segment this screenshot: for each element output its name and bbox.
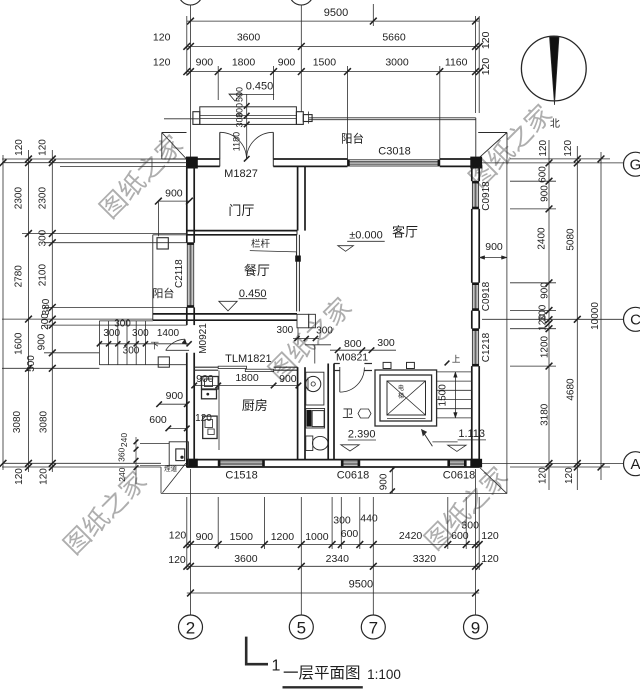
svg-text:600: 600 [341,528,359,540]
svg-text:M0921: M0921 [198,323,209,354]
svg-text:300: 300 [461,519,479,531]
right extension lines [510,180,556,182]
toilet [306,436,313,451]
eave corner bottom-left with diagonal [160,467,162,493]
stair treads (indoor, horizontal) [437,371,472,373]
flue dim chain 240/360/240 [135,437,137,484]
svg-text:120: 120 [481,553,499,565]
svg-text:300: 300 [235,112,245,127]
svg-text:梯: 梯 [398,392,404,400]
svg-text:120: 120 [480,58,492,76]
bottom intermediate extension lines [217,497,219,549]
grid bubble 9 bottom [464,615,488,639]
left dim chain middle line [28,150,30,472]
svg-text:1:100: 1:100 [367,667,401,682]
bath basin niche and bowl [306,372,324,405]
svg-text:300: 300 [333,515,351,527]
svg-text:下: 下 [151,341,160,351]
eave corner bottom-right with diagonal [479,467,507,494]
svg-text:2: 2 [186,618,195,637]
svg-text:900: 900 [379,473,390,490]
svg-text:3320: 3320 [413,553,437,565]
svg-text:4680: 4680 [566,378,577,401]
svg-text:600: 600 [451,530,469,542]
svg-text:120: 120 [563,140,574,157]
svg-text:1500: 1500 [438,384,449,407]
svg-text:2300: 2300 [14,187,25,210]
stair flight dim line 1500 [454,372,456,418]
bottom extension lines grid 2/5/7/9 [190,469,192,615]
svg-text:3080: 3080 [39,410,50,433]
entry steps band [200,107,297,125]
svg-text:北: 北 [550,118,560,130]
svg-text:120: 120 [14,468,25,485]
svg-text:9: 9 [471,618,480,637]
wall bottom A full width [187,459,479,461]
wall grid5 upper (foyer/living separation) [297,166,299,230]
svg-text:3180: 3180 [540,403,551,426]
svg-text:C0918: C0918 [481,281,492,311]
svg-text:300: 300 [103,328,120,339]
svg-text:1200: 1200 [271,531,295,543]
elevator door tabs [383,362,391,368]
svg-text:240: 240 [119,433,129,447]
grid bubble A [624,452,640,476]
outdoor stair dim line 300x3 + 1400 [99,343,189,345]
top extension line grid 5 [300,5,302,112]
entry level triangle [229,94,241,101]
svg-text:5: 5 [297,618,306,637]
svg-text:3080: 3080 [12,410,23,433]
kitchen counter front edge [218,371,220,451]
kitchen sink counter [202,377,219,390]
wall right grid9: segment below C1218 [471,366,473,460]
dining level triangle [219,301,237,311]
eave line above entry (left segment) [164,118,199,120]
eave line bottom [161,492,507,494]
svg-text:±0.000: ±0.000 [349,230,383,242]
svg-text:1800: 1800 [235,372,259,384]
wall left grid2: segment G to window C2118 [186,166,188,242]
svg-text:900: 900 [196,57,214,69]
svg-text:C1218: C1218 [481,332,492,362]
left dim chain inner line [51,150,53,472]
elevator shaft outer walls [375,370,437,426]
svg-text:C0918: C0918 [481,181,492,211]
wall right grid9: segment C0918b to C1218 [471,311,473,329]
top extension line edge left [186,16,188,76]
svg-text:120: 120 [480,31,492,49]
svg-text:2100: 2100 [38,264,49,287]
svg-text:300: 300 [132,328,149,339]
svg-text:一层平面图: 一层平面图 [283,665,361,682]
wall G top: segment left of door M1827 [187,158,220,160]
svg-text:5080: 5080 [566,228,577,251]
svg-text:120: 120 [168,554,186,566]
svg-text:120: 120 [538,467,549,484]
svg-text:1500: 1500 [313,57,337,69]
svg-text:9500: 9500 [349,578,373,590]
svg-text:煙道: 煙道 [164,464,178,473]
column at G x grid2 [186,157,198,169]
door M0821 leaf and arc [339,367,341,392]
stair down arrow [422,430,433,447]
svg-text:M1827: M1827 [224,168,258,180]
corridor level triangle [448,445,466,451]
title underline [283,686,363,688]
dimension line top row 3 (900/1800/900/1500/3000/1160) [187,71,479,73]
svg-text:300: 300 [377,337,395,349]
svg-text:2400: 2400 [537,227,548,250]
svg-text:9500: 9500 [324,7,348,19]
svg-text:2420: 2420 [399,530,423,542]
svg-text:1500: 1500 [230,531,254,543]
north compass circle [521,36,586,101]
svg-text:0.450: 0.450 [246,81,274,93]
svg-text:C3018: C3018 [378,146,410,158]
svg-text:600: 600 [538,166,549,183]
svg-text:2780: 2780 [14,265,25,288]
steps dining-living (two treads) [297,314,309,328]
entry porch dim chain (500/300/300/1180) [246,94,248,158]
balcony right corner vertical [475,118,477,159]
right dim chain inner [548,140,550,490]
svg-text:900: 900 [279,373,297,385]
grid line C to bubble [482,318,624,320]
svg-text:500: 500 [235,87,245,102]
window C2118 in left wall [187,243,193,308]
svg-text:1200: 1200 [540,335,551,358]
bottom dim row 1 line [187,544,479,546]
outdoor stair treads (left) [98,321,100,365]
svg-text:C0618: C0618 [443,469,475,481]
column at G x grid9 [470,157,482,169]
svg-text:120: 120 [38,139,49,156]
left side balcony outline [152,235,154,320]
bottom dim row 3 line 9500 [187,592,479,594]
svg-text:120: 120 [564,467,575,484]
bath top wall with door M0821 opening [334,363,340,365]
sliding door TLM1821 symbol [218,366,246,368]
svg-text:客厅: 客厅 [392,224,418,239]
wall left grid2: segment below M0921 [186,353,188,460]
svg-text:900: 900 [540,185,551,202]
wall jamb caps at door M1827 [219,159,221,166]
wall G top: segment right of window C3018 [440,158,479,160]
wall right grid9: segment C0918a to C0918b [471,209,473,283]
svg-text:500: 500 [26,355,37,372]
svg-text:3600: 3600 [237,32,261,44]
top extension line x=2700 [273,66,275,100]
svg-text:120: 120 [14,139,25,156]
svg-text:C2118: C2118 [174,259,185,288]
bath strip left wall (grid5) [297,367,299,459]
window C0918 lower in right wall [472,283,478,311]
svg-text:阳台: 阳台 [341,132,364,146]
wall below dining (double) [153,313,297,315]
grid line A to bubble [482,463,624,465]
svg-text:800: 800 [344,338,362,350]
svg-text:阳台: 阳台 [152,286,174,300]
railing 栏杆 between dining and living [296,235,298,312]
top extension line window C3018 left [347,66,349,160]
north compass needle [550,37,560,105]
grid bubble C [624,307,640,331]
svg-text:5660: 5660 [382,32,406,44]
svg-text:300: 300 [123,345,140,356]
flue 煙道 box [169,442,188,466]
wall right grid9: segment G to C0918a [471,166,473,181]
svg-text:1: 1 [272,658,281,675]
railing post dot [295,256,301,262]
svg-text:120: 120 [481,530,499,542]
balcony slab edge top (double line) [309,117,476,119]
dimension line top row 2 (3600/5660) [187,45,479,47]
balcony left edge stub [308,112,310,124]
wall left grid2: segment between C2118 and M0921 [186,307,188,325]
svg-text:2340: 2340 [326,553,350,565]
svg-text:1160: 1160 [445,57,468,69]
window C3018 in wall G [348,160,440,166]
svg-text:120: 120 [538,140,549,157]
svg-text:TLM1821: TLM1821 [225,353,271,365]
landing pier box [158,357,169,367]
svg-text:900: 900 [166,390,184,402]
svg-text:360: 360 [116,447,126,461]
right dim chain outer (10000) [600,152,602,480]
step dim line with arrows [293,338,319,340]
door M0921 leaf and arc [166,349,189,351]
svg-text:上: 上 [452,354,461,364]
kitchen top wall with TLM1821 opening [194,366,218,368]
svg-text:C0618: C0618 [337,469,369,481]
top extension line x=900 [217,66,219,100]
top extension line grid 2 [190,5,192,157]
top extension line grid 9 pair [475,16,477,113]
svg-text:C1518: C1518 [225,469,257,481]
svg-text:120: 120 [195,413,212,424]
entry steps left cap [193,112,200,125]
svg-text:300: 300 [38,229,49,246]
svg-text:0.450: 0.450 [239,288,267,300]
svg-text:1800: 1800 [232,57,256,69]
svg-text:200: 200 [40,313,51,330]
bath strip right wall [327,364,329,460]
grid bubble 5 bottom [289,615,313,639]
grid bubble 5 top (clipped) [289,0,313,5]
elevator car with X [387,381,426,415]
svg-text:120: 120 [39,468,50,485]
svg-text:栏杆: 栏杆 [251,238,271,250]
grid line G to bubble [482,162,624,164]
bath washer box [306,409,325,429]
svg-text:卫: 卫 [342,408,353,420]
window C0618 right in bottom wall [448,460,466,466]
kitchen stove counter [203,416,217,438]
bottom dim row 2 line [187,565,479,567]
svg-text:图纸之家: 图纸之家 [94,129,189,224]
svg-text:3000: 3000 [385,57,409,69]
top extension line grid 7 stub [372,4,374,26]
svg-text:300: 300 [277,325,294,336]
svg-text:2.390: 2.390 [348,429,376,441]
svg-text:120: 120 [153,32,171,44]
svg-text:1.113: 1.113 [458,428,485,440]
column at A x grid2 [186,459,198,468]
eave corner box top-right with diagonal [478,132,507,134]
svg-text:900: 900 [485,241,503,253]
window C0618 left in bottom wall [341,460,360,466]
title corner mark [246,637,268,665]
svg-text:440: 440 [360,513,378,525]
right dim chain middle [576,146,578,490]
dimension line 9500 (top row 1) [187,20,479,22]
svg-text:厨房: 厨房 [242,398,268,413]
wall below foyer 门厅 [187,230,297,232]
window C0918 upper in right wall [472,181,478,209]
svg-text:900: 900 [196,531,214,543]
svg-text:电: 电 [398,384,404,392]
svg-text:900: 900 [165,187,183,199]
svg-text:300: 300 [316,325,333,336]
bottom extension edge lines [186,497,188,570]
svg-text:M0821: M0821 [336,352,368,364]
svg-text:900: 900 [37,333,48,350]
grid bubble 7 bottom [361,615,385,639]
column at A x grid9 [470,459,482,468]
entry steps right cap [296,112,303,125]
svg-text:120: 120 [153,57,171,69]
grid bubble 2 bottom [179,615,203,639]
svg-text:900: 900 [278,57,296,69]
top extension line window C3018 right [439,66,441,160]
left extension lines to building [2,158,187,160]
svg-text:380: 380 [41,298,52,315]
bath level triangle [341,445,359,451]
living level triangle [338,246,354,252]
svg-text:餐厅: 餐厅 [244,263,270,278]
svg-text:2300: 2300 [38,187,49,210]
svg-text:10000: 10000 [590,302,601,330]
svg-text:900: 900 [540,282,551,299]
wall G top: segment between door and window C3018 [273,158,347,160]
svg-text:1600: 1600 [14,332,25,355]
svg-text:120: 120 [169,530,187,542]
eave corner box top-left with diagonal [161,133,163,160]
grid bubble G [624,152,640,176]
svg-text:240: 240 [117,467,127,481]
svg-text:7: 7 [369,618,378,637]
svg-text:120: 120 [538,314,549,331]
left dim chain outer line [2,155,4,470]
svg-text:3600: 3600 [234,553,258,565]
svg-text:1000: 1000 [305,531,329,543]
double door M1827 leaves and swing arcs [219,132,221,159]
kitchen dim row 900/1800/900 [194,385,298,387]
svg-text:C: C [630,311,640,328]
floor drain hexagon [358,409,371,418]
svg-text:1400: 1400 [157,328,180,339]
svg-text:A: A [630,456,640,473]
window C1218 in right wall [472,329,478,366]
left balcony pier [157,238,168,249]
svg-text:图纸之家: 图纸之家 [58,466,153,561]
niche line in bath strip [305,344,331,346]
svg-text:G: G [630,156,640,173]
window C1518 in bottom wall [218,460,264,466]
right eave line vertical [506,159,508,494]
svg-text:门厅: 门厅 [228,203,254,218]
grid bubble 2 top (clipped) [179,0,203,5]
svg-text:600: 600 [149,414,167,426]
